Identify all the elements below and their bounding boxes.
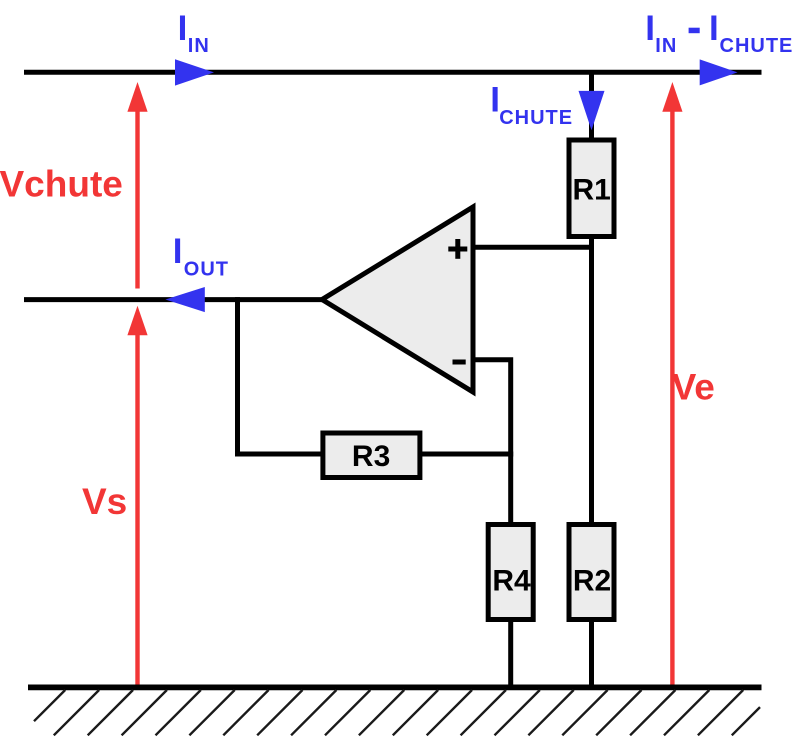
resistor R3 [323,433,420,478]
wire: R3 left lead [235,452,325,457]
op-amp U1 [322,207,473,392]
svg-text:Vs: Vs [82,481,127,522]
svg-text:Ve: Ve [672,366,715,407]
arrow: I_IN current arrow on top rail [175,59,214,85]
svg-text:IN: IN [188,35,210,57]
svg-text:R3: R3 [352,440,390,473]
op-amp + input sign [448,239,467,259]
arrow: Ve arrowhead [662,82,682,112]
label I_OUT [173,232,229,281]
svg-text:OUT: OUT [184,259,229,281]
svg-text:R1: R1 [573,173,611,206]
label I_IN [178,9,210,57]
arrow: I_OUT current arrow on output rail [165,287,204,312]
wire: R2 bottom to ground [589,618,594,687]
arrow: Vchute arrowhead [127,82,147,112]
wire: R1 to R2 vertical [589,236,594,526]
op-amp - input sign [453,360,466,365]
svg-text:CHUTE: CHUTE [720,35,794,57]
wire: feedback drop from output rail [235,297,240,456]
arrow: Vchute voltage arrow (shaft) [135,110,139,289]
arrow: Ve voltage arrow (shaft) [670,110,674,685]
svg-text:I: I [709,9,719,48]
svg-text:Vchute: Vchute [0,164,123,205]
svg-text:R2: R2 [573,565,611,598]
arrow: Vs voltage arrow (shaft) [135,333,139,685]
svg-text:I: I [173,232,183,271]
resistor R1 [569,140,614,237]
wire: output rail (left) [24,297,325,302]
label I_IN - I_CHUTE [645,9,793,57]
wire: drop from top rail to R1 [589,72,594,142]
wire: top input rail [24,70,762,75]
svg-text:R4: R4 [492,565,531,598]
arrow: I_IN - I_CHUTE current arrow top right [700,59,738,85]
svg-text:IN: IN [655,35,677,57]
arrow: Vs arrowhead [127,306,147,336]
ground [28,685,762,691]
svg-text:I: I [178,9,188,48]
arrow: I_CHUTE current arrow down to R1 [579,91,605,130]
label I_CHUTE [490,80,573,129]
wire: op-amp + input to R1/R2 node [473,245,594,250]
svg-text:CHUTE: CHUTE [499,107,573,129]
svg-text:I: I [645,9,655,48]
wire: R4 bottom to ground [508,618,513,687]
resistor R4 [488,525,533,620]
wire: op-amp - input lead and drop to R4 [473,360,511,526]
ground hatching [34,690,760,735]
wire: R3 right lead [418,452,513,457]
resistor R2 [569,525,614,620]
